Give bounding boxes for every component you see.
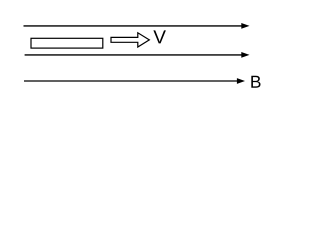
field line middle (wire) bbox=[25, 52, 250, 58]
conductor rod (rectangle) bbox=[31, 38, 103, 48]
field line bottom (wire) bbox=[24, 78, 245, 84]
velocity block arrow V bbox=[111, 33, 149, 47]
label V bbox=[153, 30, 166, 43]
label B bbox=[251, 76, 260, 88]
field line top (wire) bbox=[24, 23, 250, 29]
